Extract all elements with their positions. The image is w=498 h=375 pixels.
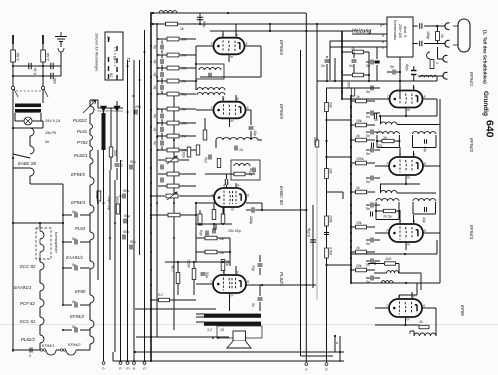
- wire y192 agc: [327, 191, 344, 193]
- resistor ladder r6: [167, 121, 179, 125]
- svg-text:1,6A: 1,6A: [45, 52, 50, 61]
- capacitor 5n chain y242: [75, 240, 77, 245]
- wire ladder stub 6: [161, 137, 163, 140]
- svg-text:100p: 100p: [426, 31, 430, 39]
- heater EABC80 hump a: [30, 128, 34, 136]
- svg-text:10k: 10k: [356, 119, 362, 123]
- diode D1: [98, 106, 110, 111]
- svg-text:9: 9: [413, 295, 415, 299]
- resistor r-af2: [167, 184, 179, 188]
- coil cath1 row wire: [397, 124, 440, 126]
- svg-text:0,25µ: 0,25µ: [307, 228, 311, 237]
- dipole loop 240R: [458, 19, 470, 52]
- svg-text:9: 9: [237, 184, 239, 188]
- coil EF80 cath: [414, 333, 436, 336]
- wire x326 agc: [326, 88, 328, 362]
- svg-text:PL82/1: PL82/1: [74, 153, 88, 158]
- svg-text:PCF 82: PCF 82: [20, 301, 35, 306]
- wire x437 stub: [436, 240, 438, 254]
- svg-text:200: 200: [113, 149, 117, 156]
- resistor ladder r5: [167, 107, 179, 111]
- wire x301 long: [300, 50, 302, 356]
- svg-text:5: 5: [424, 95, 426, 99]
- svg-text:EF80: EF80: [75, 289, 86, 294]
- svg-text:5n: 5n: [153, 45, 157, 49]
- svg-text:m: m: [407, 318, 410, 322]
- terminal h: [119, 362, 122, 365]
- wire top y24: [153, 23, 387, 25]
- svg-text:200p: 200p: [249, 215, 253, 224]
- wire y295: [399, 294, 417, 296]
- coil cath1: [381, 122, 398, 125]
- svg-text:40µ: 40µ: [199, 230, 203, 236]
- capacitor right col y278: [371, 276, 373, 281]
- components cluster ratio det: [187, 147, 191, 157]
- transformer T1 primary: [15, 104, 41, 108]
- coil L3: [197, 88, 225, 90]
- wire chain1 top: [39, 223, 41, 228]
- plug pin L: [12, 35, 14, 44]
- heater connector a: [40, 349, 42, 351]
- svg-text:5n: 5n: [366, 90, 370, 94]
- wire y81: [317, 80, 437, 82]
- svg-text:(1. Teil des Schaltbildes): (1. Teil des Schaltbildes): [483, 30, 488, 84]
- wire tube2 g2 stub: [399, 147, 401, 157]
- wire tube1 left: [342, 98, 390, 100]
- svg-text:1M: 1M: [181, 108, 186, 112]
- capacitor 5n heater: [30, 348, 32, 353]
- heater hump chain2 5: [90, 177, 94, 185]
- svg-text:5: 5: [423, 304, 425, 308]
- wire PL82 left: [196, 283, 213, 285]
- wire y265 agc: [327, 264, 352, 266]
- wire x63 lower: [62, 223, 64, 305]
- resistor ladder r8: [167, 148, 179, 152]
- capacitor c-af: [161, 165, 163, 170]
- svg-text:350V: 350V: [115, 196, 119, 205]
- resistor right col 1k y140: [356, 138, 367, 142]
- capacitor +30p trimmer: [411, 71, 417, 75]
- resistor 10k: [325, 169, 329, 179]
- svg-text:5: 5: [29, 354, 31, 358]
- svg-text:m: m: [231, 294, 234, 298]
- svg-text:m: m: [230, 55, 233, 59]
- heater connector b: [60, 349, 62, 351]
- capacitor 75p: [258, 264, 263, 266]
- capacitor ladder c2: [161, 72, 163, 77]
- wire PL82 cathode: [229, 293, 231, 311]
- wire earth drop: [60, 52, 62, 76]
- wire tubeA g2 stub: [222, 31, 224, 38]
- resistor 1k EF80: [419, 325, 429, 329]
- svg-text:1kΩ: 1kΩ: [385, 257, 392, 261]
- wire y337: [136, 336, 229, 338]
- svg-text:5: 5: [424, 229, 426, 233]
- wire y184: [380, 183, 420, 185]
- bus line B+ x151 (thick): [150, 13, 152, 362]
- wire tubeB left: [196, 109, 214, 111]
- capacitor 50n: [214, 225, 216, 230]
- svg-text:25n: 25n: [53, 78, 57, 85]
- svg-text:25µ: 25µ: [204, 157, 208, 164]
- bus line x174: [173, 95, 175, 330]
- svg-text:4: 4: [223, 97, 225, 101]
- tube EABC80 (V6): [214, 188, 246, 207]
- wire y66: [13, 65, 61, 67]
- connector pins left column: [108, 37, 110, 79]
- svg-text:PL82/2: PL82/2: [21, 337, 35, 342]
- resistor 50k box af: [198, 214, 202, 225]
- svg-text:9: 9: [413, 220, 415, 224]
- coil L4 long: [216, 138, 258, 140]
- bus line x120: [120, 160, 122, 361]
- resistor 0,5M b: [325, 248, 329, 258]
- bus line x115: [114, 180, 116, 352]
- wire y283b: [393, 282, 417, 284]
- bus line x134: [133, 60, 135, 361]
- resistor 1,5k: [176, 273, 180, 284]
- svg-text:75p: 75p: [251, 265, 255, 271]
- svg-text:5n: 5n: [251, 303, 255, 307]
- wire earth stem: [60, 42, 62, 48]
- svg-text:4: 4: [223, 184, 225, 188]
- IF can box L2: [196, 64, 224, 79]
- bus caps 50µ: [130, 165, 132, 170]
- coil IF3 a: [387, 271, 399, 273]
- wire tube2 right: [423, 165, 440, 167]
- resistor right col 100k y163: [356, 161, 367, 165]
- capacitor ladder c0: [161, 45, 163, 50]
- resistor ladder r0: [167, 37, 179, 41]
- wire ladder stub 3: [161, 81, 163, 84]
- heater PL82/2 hump: [40, 335, 44, 343]
- wire EF80 right: [422, 307, 436, 309]
- svg-text:PY83: PY83: [77, 140, 88, 145]
- wire cap50p stub: [199, 13, 201, 24]
- wire y283: [351, 282, 440, 284]
- svg-text:EF94/2: EF94/2: [68, 342, 81, 347]
- svg-text:640: 640: [484, 120, 496, 138]
- heater EF94/2 hump bottom: [66, 350, 76, 355]
- paper crease (decorative): [0, 324, 498, 326]
- resistor 100 heiz: [351, 88, 354, 96]
- resistor 0,22 bottom: [159, 298, 170, 302]
- resistor 1M EABC grid: [234, 172, 245, 176]
- svg-text:m: m: [231, 208, 234, 212]
- wire y262: [165, 261, 230, 263]
- wire y254: [351, 253, 437, 255]
- svg-text:4: 4: [222, 33, 224, 37]
- resistor right col 1k y192: [356, 190, 367, 194]
- resistor right col 20k y270: [356, 268, 367, 272]
- capacitor 50µ af: [201, 273, 206, 275]
- wire tube1 g2 stub: [399, 81, 401, 91]
- wire tubeB g2 stub: [222, 96, 224, 102]
- heater hump chain2 6: [90, 205, 94, 213]
- wire tube2 a stub: [413, 151, 415, 157]
- resistor right col 1k y252: [356, 250, 367, 254]
- svg-text:50k: 50k: [225, 260, 229, 266]
- svg-text:EF94/5: EF94/5: [279, 104, 284, 119]
- wire lamp left: [15, 120, 24, 122]
- wire x270 stub: [269, 24, 271, 31]
- wire x440 feedback: [439, 99, 441, 283]
- svg-text:10k: 10k: [329, 168, 333, 174]
- svg-text:5: 5: [247, 194, 249, 198]
- coil ant: [420, 75, 437, 77]
- capacitor 0,1µ: [29, 63, 31, 70]
- svg-text:T2: T2: [126, 57, 131, 63]
- capacitor 200p: [252, 207, 254, 213]
- heater EF94/1 hump: [46, 350, 56, 355]
- wire heater bottom: [13, 349, 40, 351]
- svg-text:5n: 5n: [153, 60, 157, 64]
- heater ECC81 hump: [40, 317, 44, 325]
- svg-text:5n: 5n: [72, 325, 76, 329]
- filter choke (iron core): [102, 113, 106, 150]
- wire EABC g stub: [226, 185, 228, 188]
- wire x317: [316, 24, 318, 140]
- svg-text:150k: 150k: [329, 215, 333, 223]
- capacitor 25n af: [213, 229, 215, 234]
- tube EF94/4 (V4): [214, 38, 245, 55]
- wire heater top to PSU: [90, 99, 98, 101]
- svg-text:m: m: [407, 243, 410, 247]
- capacitor EABC grid: [225, 179, 227, 185]
- svg-text:1k: 1k: [351, 47, 355, 51]
- svg-text:4: 4: [223, 271, 225, 275]
- resistor psu b: [97, 191, 101, 201]
- capacitor 5n out: [258, 298, 263, 300]
- tube PL82/1 (V7): [213, 275, 246, 293]
- svg-text:400Ω: 400Ω: [187, 259, 191, 268]
- wire x196 ladder feed: [195, 46, 197, 90]
- bus B+ right x351 (thick): [350, 95, 352, 283]
- svg-text:25n 50µ: 25n 50µ: [227, 229, 241, 233]
- wire EABC right: [246, 202, 262, 204]
- capacitor right col y62: [371, 60, 373, 65]
- capacitor ladder c1: [161, 59, 163, 64]
- svg-text:50µ: 50µ: [205, 272, 209, 278]
- wire x196 fb: [195, 203, 197, 262]
- fuse Si2: [41, 50, 46, 62]
- capacitor 40p IF1: [425, 139, 427, 144]
- svg-text:19LP6: 19LP6: [45, 131, 57, 135]
- resistor 1M a: [205, 236, 217, 240]
- coil cath2: [381, 190, 398, 193]
- heater hump chain2 8: [90, 261, 94, 269]
- svg-text:0,5M: 0,5M: [313, 137, 317, 145]
- svg-text:19V 0,24: 19V 0,24: [45, 119, 60, 123]
- ground symbol (mains earth): [55, 32, 67, 42]
- antenna socket 4: [443, 72, 448, 79]
- svg-text:20k: 20k: [355, 264, 362, 268]
- svg-text:1n: 1n: [239, 148, 243, 152]
- svg-text:175p: 175p: [249, 168, 253, 176]
- svg-text:50k: 50k: [181, 38, 187, 42]
- svg-text:4: 4: [399, 86, 401, 90]
- svg-text:40p: 40p: [423, 146, 427, 152]
- wire EABC left pin: [196, 202, 215, 204]
- capacitor ladder c4: [161, 114, 163, 119]
- resistor ladder r3: [167, 79, 179, 83]
- terminal a1: [133, 362, 136, 365]
- wire x437 fb: [436, 99, 438, 116]
- capacitor right col y88: [371, 86, 373, 91]
- resistor 20k: [325, 103, 329, 112]
- svg-text:5n: 5n: [72, 237, 76, 241]
- heater hump chain2 3: [90, 146, 93, 151]
- resistor 1k IF1: [382, 139, 394, 142]
- svg-text:10k: 10k: [356, 221, 362, 225]
- svg-text:5n: 5n: [153, 86, 157, 90]
- lamp La (dial light): [24, 117, 32, 125]
- wire y300: [151, 299, 196, 301]
- fuse Si1: [11, 50, 16, 62]
- wire x417 drop: [416, 283, 418, 295]
- svg-text:1k: 1k: [180, 27, 184, 31]
- wire EF80 a stub: [411, 292, 413, 299]
- svg-text:40p: 40p: [422, 217, 426, 223]
- resistor right col 1k y101: [356, 99, 367, 103]
- capacitor 25n b: [51, 73, 53, 80]
- wire top y13: [153, 12, 306, 14]
- wire tubeA left: [196, 45, 214, 47]
- wire IF1 frame bottom L: [377, 147, 399, 149]
- wire y174 EABC: [205, 173, 255, 175]
- svg-text:4: 4: [399, 153, 401, 157]
- svg-text:10k: 10k: [181, 149, 187, 153]
- svg-text:5n: 5n: [366, 207, 370, 211]
- svg-text:5: 5: [247, 106, 249, 110]
- wire y77: [200, 76, 261, 78]
- heater hump c: [30, 168, 34, 176]
- svg-text:0,2: 0,2: [158, 293, 163, 297]
- bus line x139: [139, 60, 141, 255]
- capacitor ladder c5: [161, 127, 163, 132]
- wire tubeB cathode stub: [229, 118, 231, 127]
- resistor ladder r2: [167, 66, 179, 70]
- terminal o2: [305, 363, 308, 366]
- switch contact earth hook: [58, 48, 64, 52]
- transformer T1 secondary: [15, 109, 41, 113]
- capacitor c-af2: [161, 178, 163, 183]
- speaker LS: [233, 331, 246, 341]
- svg-text:50k: 50k: [181, 67, 187, 71]
- wire tubeA a stub: [235, 24, 237, 38]
- wire tube3 cathode: [405, 242, 407, 250]
- wire y356: [301, 355, 334, 357]
- svg-text:100k: 100k: [356, 157, 364, 161]
- resistor on bus x117: [116, 204, 120, 214]
- connector box Stecker fuer Abstimmgeraet: [105, 32, 123, 80]
- bus line x98: [97, 150, 99, 280]
- svg-text:EF94/3: EF94/3: [70, 314, 84, 319]
- resistor 1M b: [205, 250, 217, 254]
- svg-text:ECC 81: ECC 81: [20, 319, 36, 324]
- wire diode2 top: [116, 101, 118, 106]
- svg-text:n: n: [382, 46, 384, 50]
- wire y223: [13, 222, 63, 224]
- svg-text:25n: 25n: [134, 105, 141, 109]
- tuner box Kanalwaehler (dashed): [36, 228, 51, 259]
- svg-text:Abst. 8: Abst. 8: [403, 26, 407, 37]
- resistor right col 10k y227: [356, 225, 367, 229]
- svg-text:EAA91/1: EAA91/1: [66, 255, 84, 260]
- svg-text:1k: 1k: [356, 246, 360, 250]
- capacitor 25 IF1: [372, 143, 374, 148]
- svg-text:1M: 1M: [181, 80, 186, 84]
- svg-text:5: 5: [247, 280, 249, 284]
- svg-text:20k: 20k: [329, 101, 333, 108]
- wire x251 drop: [250, 110, 252, 125]
- wire PL82 right: [246, 284, 316, 286]
- svg-text:g: g: [382, 33, 384, 37]
- capacitor right col y150: [371, 148, 373, 153]
- capacitor 5n agc: [324, 233, 329, 235]
- svg-text:1k: 1k: [356, 134, 360, 138]
- heater hump chain2 9: [90, 295, 94, 303]
- capacitor 5n heiz b: [325, 60, 330, 62]
- wire y325 EF80: [375, 324, 419, 326]
- capacitor right col y240: [371, 238, 373, 243]
- capacitor right col y205: [371, 203, 373, 208]
- capacitor 40p IF2: [425, 207, 427, 212]
- coil L-top: [159, 11, 177, 13]
- capacitor 5n chain y215: [75, 213, 77, 218]
- wire y193: [397, 192, 436, 194]
- bus line x127: [127, 60, 129, 361]
- svg-text:5n: 5n: [366, 134, 370, 138]
- svg-text:1k 5µ: 1k 5µ: [383, 215, 392, 219]
- IF transformer 2 secondary frame: [412, 202, 414, 214]
- svg-text:100: 100: [347, 82, 351, 88]
- svg-text:9: 9: [236, 33, 238, 37]
- capacitor 25n a: [51, 63, 53, 70]
- svg-text:EF80: EF80: [460, 305, 465, 316]
- wire x63: [62, 184, 64, 223]
- resistor 200R psu: [109, 147, 113, 157]
- heater EABC80 hump b: [30, 146, 34, 154]
- wire x306 long: [305, 13, 307, 362]
- wire PL82 a stub: [235, 266, 237, 275]
- capacitor 50µ psu a: [115, 164, 120, 166]
- ratio detector box: [231, 160, 260, 180]
- wire to box g: [330, 40, 387, 42]
- svg-text:50p: 50p: [202, 21, 206, 27]
- bus line x103: [103, 150, 105, 361]
- svg-text:5n: 5n: [349, 64, 353, 68]
- wire box to cap 100p: [413, 25, 418, 27]
- svg-text:EF94/2: EF94/2: [469, 138, 474, 153]
- voltage selector arrow: [83, 100, 96, 113]
- capacitor 5n cath1: [374, 113, 376, 119]
- wire tubeB right: [246, 109, 252, 111]
- capacitor 0,25µ: [310, 240, 316, 242]
- svg-text:0,5M: 0,5M: [329, 247, 333, 255]
- svg-text:5n: 5n: [366, 115, 370, 119]
- diode D2: [111, 106, 123, 111]
- resistor 400R: [192, 269, 196, 280]
- wire tube2 left: [375, 165, 389, 167]
- capacitor 50p: [197, 17, 204, 19]
- terminal o1: [102, 362, 105, 365]
- wire y76: [13, 75, 61, 77]
- capacitor ladder c6: [161, 141, 163, 146]
- svg-text:5: 5: [246, 42, 248, 46]
- wire x335 heiz: [334, 58, 336, 81]
- svg-text:40p: 40p: [253, 130, 257, 136]
